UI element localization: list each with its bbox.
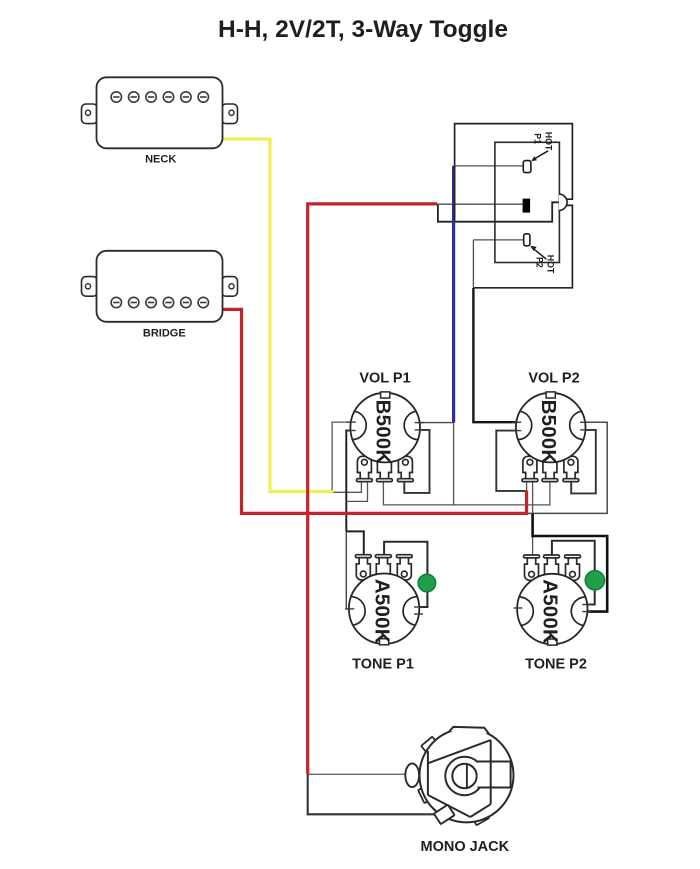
wire gray output jumper VOL P1 lug2 to VOL P2: [383, 481, 550, 505]
potentiometer VOL P2 B500K: [512, 392, 589, 482]
jack mounting tab bottom-right: [473, 811, 490, 825]
wire red bridge hot: [223, 309, 527, 513]
toggle inner frame: [495, 142, 560, 262]
wire yellow neck hot: [223, 139, 334, 492]
wire gray toggle lug3: [473, 240, 524, 287]
jack ring inner: [452, 764, 476, 788]
svg-text:A500K: A500K: [539, 579, 562, 644]
toggle lug3: [524, 234, 530, 246]
jack body circle: [420, 728, 514, 822]
potentiometer TONE P2 A500K: [513, 555, 591, 645]
jack mounting tab bottom-left: [418, 787, 432, 804]
svg-text:VOL P1: VOL P1: [359, 371, 410, 387]
wire TONE P2 lug2 to cap to right notch: [552, 541, 595, 605]
wire black toggle output to VOL P2: [473, 288, 524, 422]
jack top flat tab: [449, 727, 488, 734]
wire black to TONE P1 lug1: [346, 531, 364, 554]
wire gray VOL P2 right tick1 loop: [528, 422, 608, 513]
svg-text:HOT: HOT: [543, 132, 553, 151]
capacitor C2: [585, 571, 604, 590]
wire black main ground bus: [346, 431, 357, 532]
capacitor C1: [418, 574, 435, 591]
svg-text:A500K: A500K: [370, 579, 393, 644]
svg-text:TONE P2: TONE P2: [525, 657, 587, 673]
wire TONE P1 lug2 to cap to right notch: [384, 542, 427, 607]
svg-text:MONO JACK: MONO JACK: [420, 839, 509, 855]
connector J1 mono jack: [405, 727, 513, 825]
wire black ground loop to TONE P2 right notch: [533, 514, 608, 612]
switch SW1 3-way toggle: [455, 124, 573, 288]
toggle pivot arc: [559, 194, 567, 210]
svg-text:H-H, 2V/2T, 3-Way Toggle: H-H, 2V/2T, 3-Way Toggle: [218, 16, 508, 43]
toggle lug1: [523, 161, 531, 173]
wire gray red stub to VOL P2 lug1: [526, 481, 528, 491]
potentiometer VOL P1 B500K: [347, 392, 424, 482]
wire gray toggle lug1: [454, 165, 524, 167]
svg-text:NECK: NECK: [145, 154, 176, 166]
toggle outer frame: [455, 124, 573, 288]
wire thin ground to TONE P1 left notch: [346, 531, 356, 609]
svg-text:B500K: B500K: [537, 400, 560, 465]
toggle lug2 common: [523, 199, 531, 213]
svg-text:B500K: B500K: [371, 400, 394, 465]
wire gray toggle lug2: [437, 203, 523, 205]
toggle lug3 pointer: [532, 247, 547, 259]
jack sleeve tab: [434, 805, 455, 824]
jack prong chord: [466, 764, 468, 789]
wire gray VOL P1 lug1 to ground: [346, 481, 367, 502]
wire gray jack tip: [308, 773, 413, 775]
wire black toggle frame ground: [438, 202, 559, 221]
jack lug plate rectangle: [478, 762, 511, 788]
svg-text:BRIDGE: BRIDGE: [143, 327, 186, 339]
wire VOL P1 lug3 box to right notch: [404, 430, 429, 493]
jack tip lug ellipse: [405, 764, 419, 788]
svg-text:VOL P2: VOL P2: [528, 371, 579, 387]
wire gray VOL P1 right tick to blue: [417, 422, 454, 424]
svg-text:TONE P1: TONE P1: [352, 657, 414, 673]
svg-text:HOT: HOT: [545, 255, 555, 274]
wire VOL P2 lug3 box to right notch: [571, 430, 596, 494]
pickup NECK: [82, 77, 238, 148]
wire jack sleeve ground: [308, 774, 435, 814]
pickup BRIDGE: [82, 251, 238, 322]
jack can outline: [428, 740, 491, 817]
jack face chord: [490, 740, 492, 804]
jack ring outer: [445, 757, 483, 795]
wire red toggle to jack: [308, 204, 438, 774]
wire VOL P2 left tick2 box to red junction: [496, 431, 526, 491]
svg-text:P2: P2: [534, 257, 544, 268]
potentiometer TONE P1 A500K: [345, 555, 423, 645]
jack mounting tab top-left: [421, 737, 437, 752]
wire blue toggle to VOL P1: [452, 166, 455, 423]
wire gray VOL P2 lug1 to TONE P2 lug1: [532, 481, 534, 555]
wire gray VOL P1 left tick to yellow junction: [332, 422, 361, 492]
wire gray blue drop to jumper: [453, 423, 455, 505]
toggle lug1 pointer: [533, 151, 549, 160]
svg-text:P1: P1: [532, 133, 542, 144]
